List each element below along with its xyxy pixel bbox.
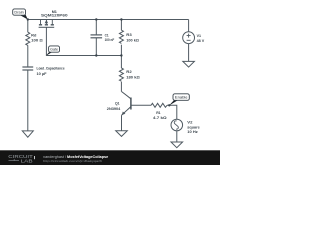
wire V1 to ground (188, 44, 190, 62)
wire drain column (27, 20, 29, 33)
node R3/R2 gate junction (120, 54, 122, 56)
resistor Rd (26, 32, 30, 45)
node flag Enable (169, 100, 178, 106)
node Drain junction (27, 18, 29, 20)
svg-text:10 Hz: 10 Hz (187, 130, 198, 134)
svg-text:R1: R1 (156, 111, 160, 115)
transistor Q1 (122, 92, 131, 116)
svg-text:http://circuitlab.com/c/jmfbak: http://circuitlab.com/c/jmfbakyqazh (43, 159, 102, 163)
capacitor C1 (91, 35, 103, 38)
svg-text:Gate: Gate (50, 48, 58, 52)
capacitor Load_Capacitance (22, 67, 33, 70)
wire gate rail (46, 55, 121, 57)
node flag Drain (20, 14, 28, 19)
node C1 top junction (95, 18, 97, 20)
svg-text:SQM120P60: SQM120P60 (41, 14, 68, 18)
svg-text:100 kΩ: 100 kΩ (126, 39, 139, 43)
wire V2 to ground (176, 131, 178, 142)
wire base lead (131, 104, 151, 106)
wire V1 drop (188, 20, 190, 32)
wire R3 bottom lead (120, 45, 122, 56)
svg-text:V2: V2 (187, 121, 192, 125)
svg-text:V1: V1 (197, 34, 201, 38)
ground V1 (183, 61, 195, 67)
resistor R3 (119, 30, 123, 43)
banner bar (0, 150, 220, 165)
resistor R2 (119, 68, 123, 81)
node flag Gate (46, 52, 53, 56)
svg-text:C1: C1 (105, 33, 109, 37)
svg-text:2N3904: 2N3904 (107, 107, 121, 111)
svg-text:4.7 kΩ: 4.7 kΩ (153, 116, 167, 120)
ground V2 (171, 142, 183, 148)
source V2 (171, 119, 183, 131)
wire R2 bottom to collector (120, 82, 122, 92)
logo divider tick (33, 156, 36, 159)
svg-text:Q1: Q1 (115, 102, 120, 106)
wire R2 top lead (120, 56, 122, 69)
node C1 bottom / gate junction (95, 54, 97, 56)
source V1 (183, 32, 195, 44)
wire R1 to enable corner (167, 105, 177, 119)
svg-text:Rd: Rd (31, 34, 37, 38)
wire load cap to ground (27, 70, 29, 130)
svg-text:100 nF: 100 nF (105, 38, 115, 42)
resistor R1 (151, 103, 167, 107)
mosfet M1 (39, 20, 55, 28)
svg-text:Enable: Enable (175, 96, 188, 100)
wire Rd to load cap (27, 45, 29, 67)
svg-text:R2: R2 (126, 70, 131, 74)
node Enable junction (168, 104, 170, 106)
wire Q1 emitter to ground (121, 115, 123, 131)
ground left (22, 131, 33, 137)
svg-text:48 V: 48 V (197, 39, 205, 43)
wire top rail (28, 19, 189, 21)
ground Q1 (116, 131, 128, 137)
svg-text:R3: R3 (126, 33, 131, 37)
svg-text:Load_Capacitance: Load_Capacitance (37, 67, 65, 71)
svg-text:square: square (187, 125, 199, 129)
svg-text:100 Ω: 100 Ω (31, 39, 43, 43)
svg-text:180 kΩ: 180 kΩ (126, 75, 139, 79)
svg-text:LAB: LAB (21, 159, 33, 164)
svg-text:10 µF: 10 µF (37, 72, 48, 76)
wire R3 top lead (120, 20, 122, 31)
wire C1 top lead (95, 20, 97, 35)
wire C1 bottom lead (95, 38, 97, 56)
node R3 top junction (120, 18, 122, 20)
svg-text:Drain: Drain (14, 11, 23, 15)
wire gate lead vertical (45, 27, 47, 55)
